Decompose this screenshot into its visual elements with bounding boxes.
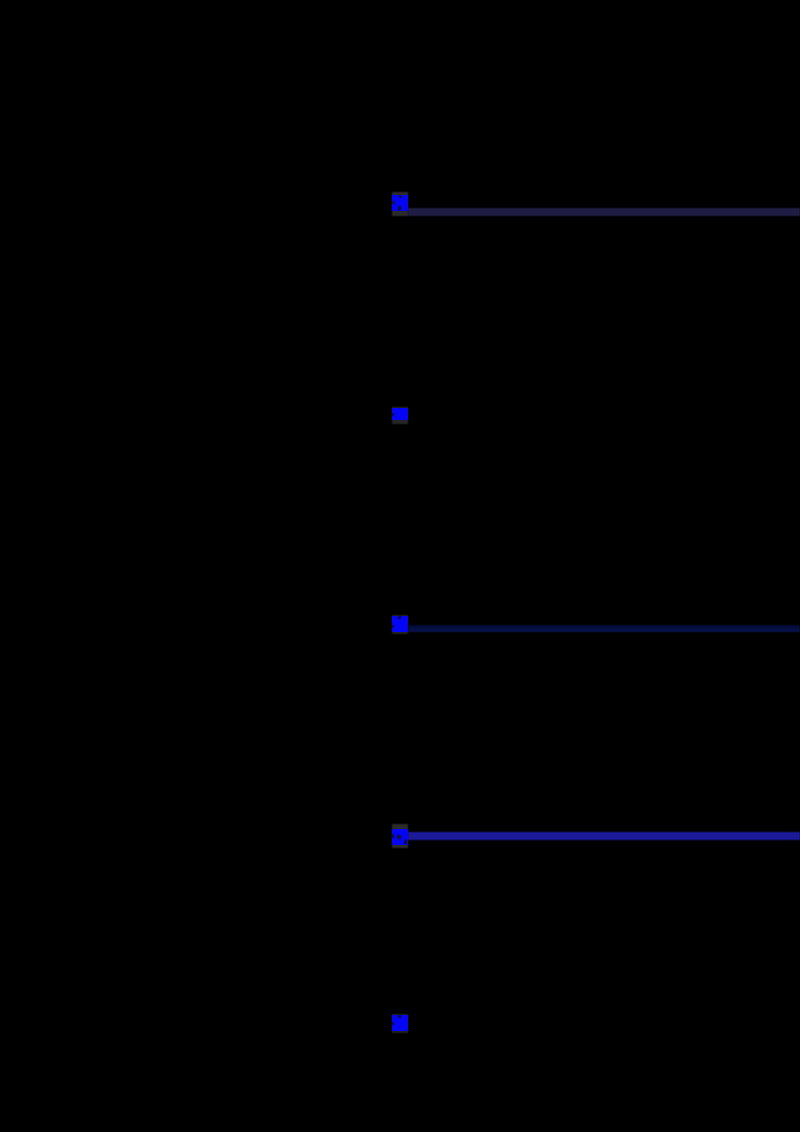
row 2 highlight box — [392, 407, 408, 424]
row 3 blue marker — [392, 616, 408, 632]
row 1 blue marker "24" — [392, 195, 408, 211]
row 3 bar — [408, 625, 800, 632]
row 4 highlight box — [392, 824, 408, 848]
row 5 blue marker — [392, 1015, 408, 1031]
row 2 blue marker — [392, 408, 408, 421]
row 5 highlight box — [392, 1014, 408, 1033]
row 3 highlight box — [392, 615, 408, 634]
row 1 bar — [408, 208, 800, 216]
row 4 blue marker — [392, 829, 408, 845]
row 1 highlight box — [392, 192, 408, 216]
row 4 bar — [408, 832, 800, 840]
